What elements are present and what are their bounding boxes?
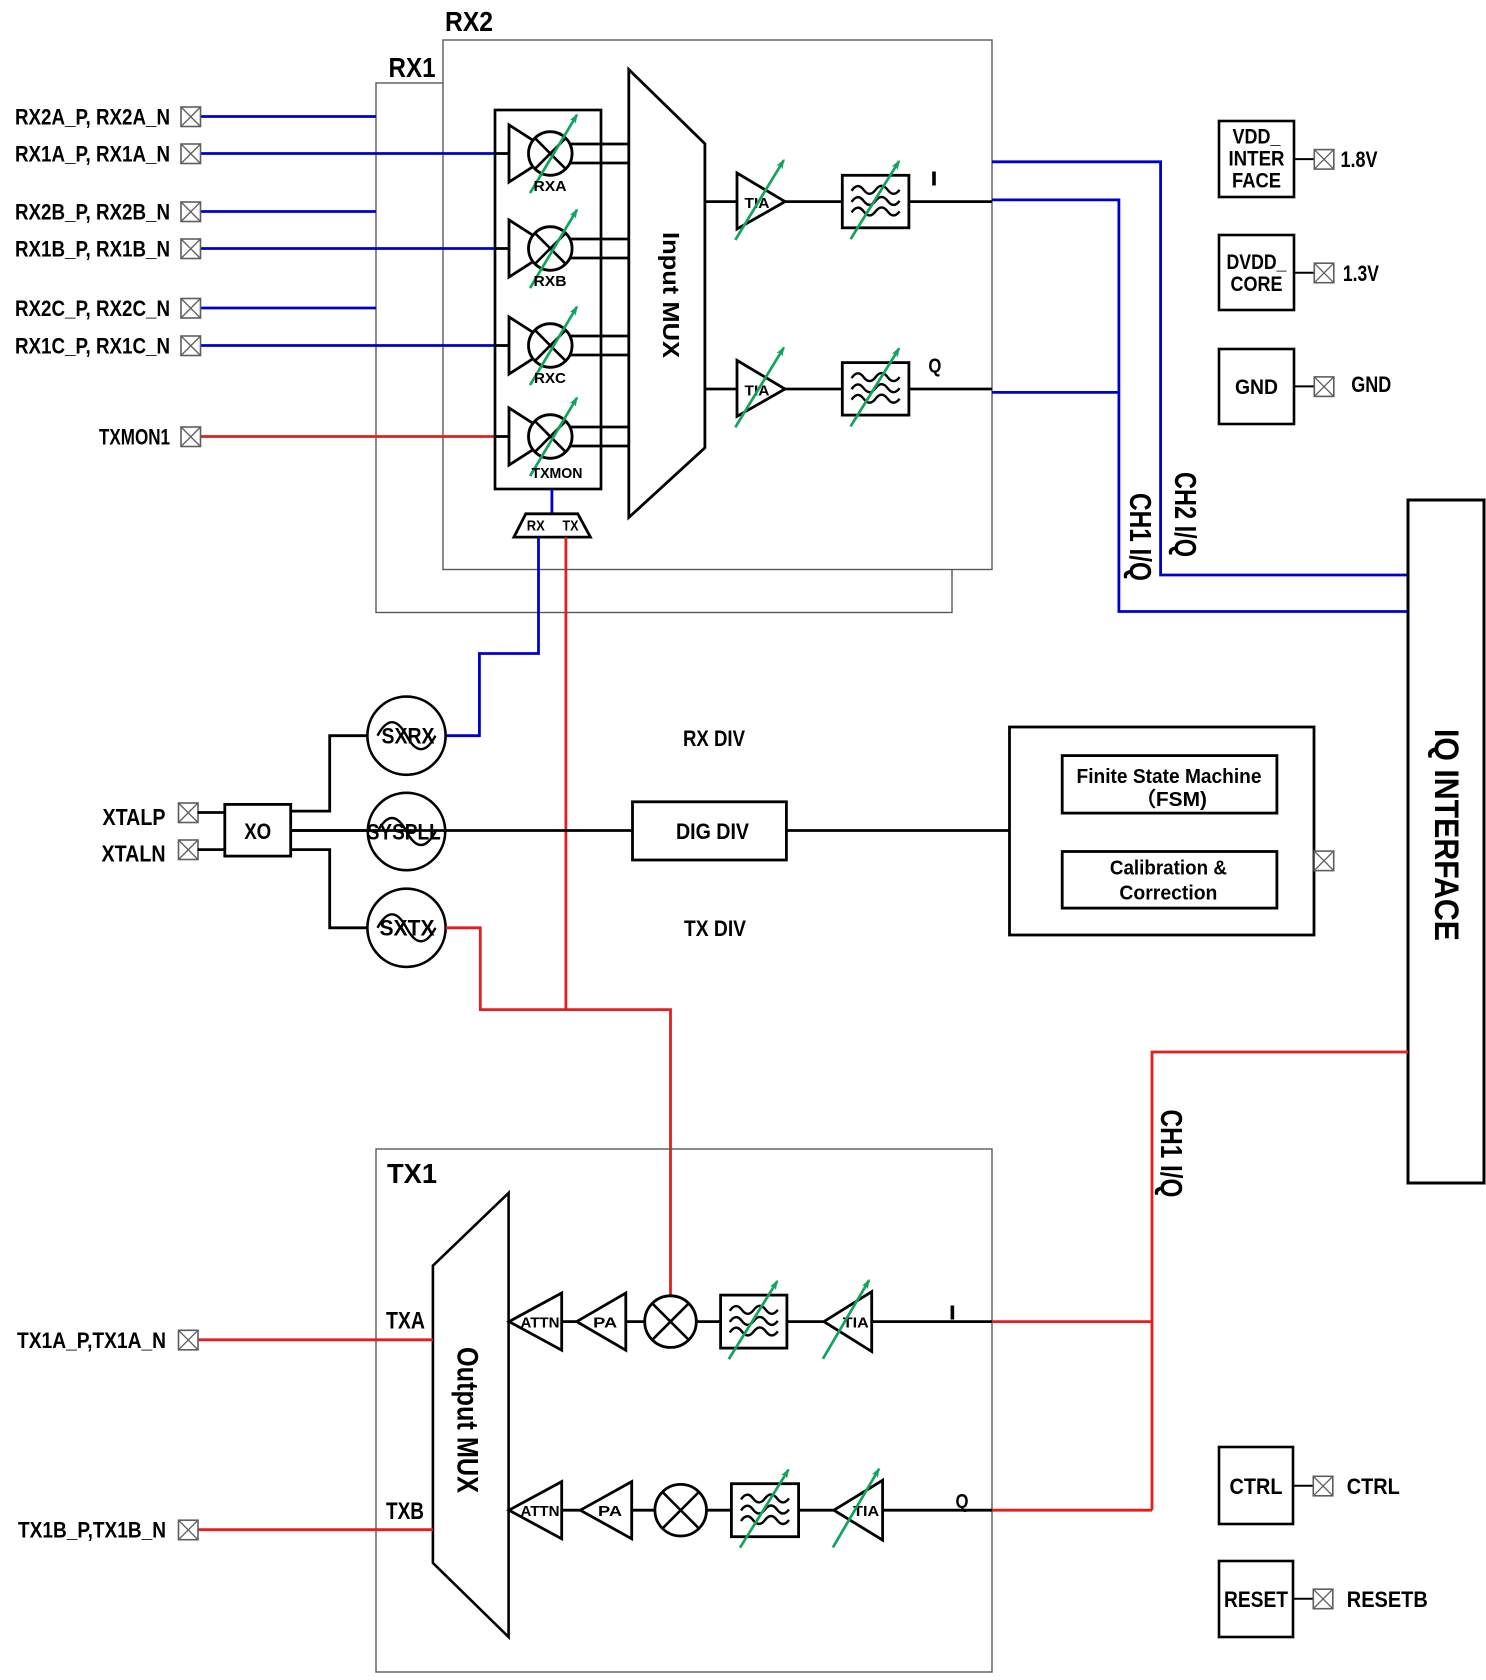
wire TXMON diff pair to Input MUX	[570, 426, 629, 429]
pin XTALN	[179, 840, 199, 860]
wire PA-mixer (Q)	[632, 1509, 655, 1512]
pin RX2A_P, RX2A_N	[181, 107, 201, 127]
pin FSM control	[1314, 851, 1334, 871]
svg-text:DVDD_: DVDD_	[1227, 251, 1287, 274]
svg-text:PA: PA	[593, 1314, 617, 1331]
block TX1 (outer box)	[376, 1149, 992, 1672]
svg-text:RX2B_P, RX2B_N: RX2B_P, RX2B_N	[15, 200, 170, 225]
amplifier PA (Q)	[580, 1482, 631, 1539]
wire TX I feed	[992, 1320, 1152, 1323]
op-amp TIA (RX I)	[737, 173, 785, 229]
pin 1.3V	[1314, 263, 1334, 283]
pin RX1B_P, RX1B_N	[181, 239, 201, 259]
switch RX/TX (trapezoid)	[514, 514, 591, 537]
op-amp TIA (TX I)	[824, 1292, 872, 1352]
mixer TX I	[645, 1296, 697, 1348]
pin TXMON1	[181, 427, 201, 447]
svg-text:1.8V: 1.8V	[1341, 147, 1378, 172]
wire RX2C_P, RX2C_N input	[198, 307, 376, 310]
wire DIG DIV to FSM block	[786, 829, 1009, 832]
amplifier RXC (LNA triangle)	[509, 317, 554, 374]
block DIG DIV	[633, 802, 787, 860]
wire TXMON1 stub to amp	[496, 435, 510, 438]
filter low-pass tunable (RX Q)	[842, 363, 909, 416]
gain arrow TIA (TX Q)	[833, 1469, 879, 1548]
svg-text:I: I	[949, 1303, 956, 1325]
wire CH1 I/Q (RX1 I to IQ interface)	[992, 200, 1408, 612]
svg-text:INTER: INTER	[1229, 148, 1285, 171]
gain arrow TIA (RX I)	[735, 160, 784, 240]
gain arrow TIA (TX I)	[823, 1280, 869, 1359]
wire SXTX LO (red)	[446, 928, 671, 1299]
svg-text:TX: TX	[563, 518, 579, 535]
mux Output MUX (trapezoid)	[433, 1193, 509, 1637]
op-amp TIA (RX Q)	[737, 360, 785, 416]
oscillator SXRX	[367, 697, 445, 775]
svg-text:XTALP: XTALP	[103, 804, 166, 830]
pin RX1C_P, RX1C_N	[181, 336, 201, 356]
svg-text:Input MUX: Input MUX	[658, 232, 684, 359]
oscillator SYSPLL	[368, 793, 445, 870]
svg-text:RX2: RX2	[445, 6, 493, 37]
filter low-pass tunable (TX I)	[721, 1295, 787, 1348]
svg-text:RXB: RXB	[534, 273, 567, 290]
wire TIA to TX1 edge (Q)	[883, 1509, 992, 1512]
attenuator ATTN (I)	[509, 1293, 562, 1350]
wire RX1B_P, RX1B_N stub to amp	[496, 247, 510, 250]
svg-text:RESETB: RESETB	[1347, 1587, 1428, 1612]
svg-text:SYSPLL: SYSPLL	[367, 819, 441, 844]
amplifier TXMON (LNA triangle)	[509, 408, 554, 465]
mux Input MUX (trapezoid)	[629, 70, 705, 518]
pin TX1B	[179, 1520, 199, 1540]
svg-text:ATTN: ATTN	[521, 1314, 560, 1331]
wire RXC diff pair to Input MUX	[570, 335, 629, 338]
mixer RXA	[529, 132, 573, 176]
svg-text:PA: PA	[598, 1503, 622, 1520]
pin RX1A_P, RX1A_N	[181, 144, 201, 164]
wire CH2 I/Q (RX2 to IQ interface)	[992, 162, 1408, 575]
filter low-pass tunable (RX I)	[842, 175, 909, 228]
pin RESETB	[1313, 1589, 1333, 1609]
wire XTALP to XO	[198, 811, 225, 814]
svg-text:TX DIV: TX DIV	[684, 916, 746, 941]
svg-text:RXA: RXA	[534, 178, 567, 195]
block digital control container	[1010, 727, 1315, 935]
wire DVDD_CORE to 1.3V pin	[1294, 272, 1314, 274]
svg-text:RX2C_P, RX2C_N: RX2C_P, RX2C_N	[15, 296, 170, 321]
wire mixer group to RX/TX switch	[551, 489, 554, 514]
svg-text:RX1A_P, RX1A_N: RX1A_P, RX1A_N	[15, 142, 170, 167]
svg-text:VDD_: VDD_	[1233, 126, 1281, 149]
block XO	[225, 804, 291, 856]
wire TIA to TX1 edge (I)	[872, 1320, 992, 1323]
mixer RXB	[529, 227, 573, 271]
svg-text:Q: Q	[956, 1491, 969, 1513]
svg-text:Correction: Correction	[1119, 883, 1217, 905]
op-amp TIA (TX Q)	[834, 1480, 883, 1540]
block GND	[1219, 349, 1294, 424]
filter low-pass tunable (TX Q)	[731, 1484, 798, 1537]
wire Input MUX to TIA (Q)	[705, 388, 737, 391]
svg-text:ATTN: ATTN	[521, 1503, 560, 1520]
wire RX2A_P, RX2A_N input	[198, 115, 376, 118]
wire RX LO from SXRX	[446, 537, 539, 736]
wire mixer-filter (I)	[696, 1320, 720, 1323]
mixer RXC	[529, 324, 573, 368]
block CTRL	[1219, 1447, 1293, 1524]
wire ATTN-PA (I)	[562, 1320, 577, 1323]
wire TIA to filter (I)	[785, 200, 842, 203]
wire RX1A_P, RX1A_N stub to amp	[496, 152, 510, 155]
amplifier RXA (LNA triangle)	[509, 125, 554, 182]
svg-text:GND: GND	[1235, 376, 1278, 399]
wire RESET to pin	[1293, 1598, 1313, 1600]
wire filter-TIA (I)	[787, 1320, 824, 1323]
wire ATTN-PA (Q)	[562, 1509, 581, 1512]
svg-text:CH1 I/Q: CH1 I/Q	[1154, 1110, 1189, 1198]
wire RX1C_P, RX1C_N stub to amp	[496, 344, 510, 347]
gain arrow TIA (RX Q)	[735, 348, 784, 428]
wire RXB diff pair to Input MUX	[570, 238, 629, 241]
svg-text:RX: RX	[527, 518, 545, 535]
wire PA-mixer (I)	[626, 1320, 645, 1323]
svg-text:I: I	[931, 169, 938, 191]
wire XTALN to XO	[198, 848, 225, 851]
wire filter-TIA (Q)	[799, 1509, 834, 1512]
svg-text:RX1: RX1	[389, 52, 436, 83]
amplifier RXB (LNA triangle)	[509, 220, 554, 277]
block RX2 (outer box)	[443, 40, 992, 570]
pin 1.8V	[1314, 150, 1334, 170]
wire RX1A_P, RX1A_N input	[198, 152, 496, 155]
svg-text:1.3V: 1.3V	[1343, 261, 1379, 286]
block Finite State Machine (FSM)	[1062, 756, 1277, 814]
svg-text:DIG DIV: DIG DIV	[676, 819, 749, 844]
box RX mixer group	[495, 110, 601, 489]
wire VDD_INTERFACE to 1.8V pin	[1294, 158, 1314, 160]
wire mixer-filter (Q)	[707, 1509, 732, 1512]
amplifier PA (I)	[577, 1293, 626, 1350]
svg-text:IQ INTERFACE: IQ INTERFACE	[1427, 729, 1465, 941]
svg-text:CTRL: CTRL	[1230, 1474, 1283, 1499]
pin TX1A	[179, 1330, 199, 1350]
svg-text:CORE: CORE	[1231, 273, 1283, 296]
svg-text:GND: GND	[1351, 372, 1391, 397]
svg-text:RXC: RXC	[534, 370, 566, 387]
block VDD_INTERFACE	[1219, 121, 1294, 197]
wire filter to RX2 edge (I)	[909, 200, 992, 203]
wire GND to GND pin	[1294, 385, 1314, 387]
svg-text:TXB: TXB	[386, 1498, 424, 1525]
block RX1 (outer box)	[376, 83, 952, 613]
wire TX1A input	[198, 1338, 433, 1341]
wire XO to SYSPLL	[291, 829, 368, 832]
svg-text:RX1C_P, RX1C_N: RX1C_P, RX1C_N	[15, 334, 170, 359]
svg-text:Calibration &: Calibration &	[1110, 858, 1227, 880]
svg-text:TXMON: TXMON	[532, 465, 583, 482]
svg-text:TXA: TXA	[386, 1307, 425, 1334]
wire TX1B input	[198, 1528, 433, 1531]
svg-text:TX1: TX1	[387, 1158, 437, 1189]
svg-text:Output MUX: Output MUX	[451, 1347, 484, 1493]
wire XO to SXTX	[291, 850, 368, 928]
svg-text:XO: XO	[244, 819, 271, 844]
svg-text:CTRL: CTRL	[1347, 1474, 1400, 1499]
svg-text:Finite State Machine: Finite State Machine	[1077, 766, 1262, 788]
svg-text:RX2A_P, RX2A_N: RX2A_P, RX2A_N	[15, 105, 170, 130]
gain arrow RXA	[530, 115, 577, 193]
wire TX Q feed	[992, 1509, 1152, 1512]
mixer TXMON	[529, 415, 573, 459]
gain arrow RXC	[530, 307, 577, 385]
svg-text:Q: Q	[928, 356, 941, 378]
svg-text:FACE: FACE	[1232, 170, 1281, 193]
gain arrow RXB	[530, 210, 577, 288]
oscillator SXTX	[367, 889, 445, 967]
wire filter to RX2 edge (Q)	[909, 388, 992, 391]
wire TX LO to TX switch	[565, 537, 568, 1010]
pin GND	[1314, 377, 1334, 397]
svg-text:SXTX: SXTX	[380, 916, 435, 941]
svg-text:CH1 I/Q: CH1 I/Q	[1123, 493, 1158, 581]
svg-text:TXMON1: TXMON1	[99, 425, 170, 450]
svg-text:CH2 I/Q: CH2 I/Q	[1168, 472, 1203, 557]
block RESET	[1219, 1561, 1293, 1637]
svg-text:RX1B_P, RX1B_N: RX1B_P, RX1B_N	[15, 237, 170, 262]
wire CH1 Q join	[992, 391, 1119, 394]
wire RXA diff pair to Input MUX	[570, 143, 629, 146]
mixer TX Q	[655, 1484, 707, 1536]
wire RX1B_P, RX1B_N input	[198, 247, 496, 250]
wire TIA to filter (Q)	[785, 388, 842, 391]
block Calibration &amp; Correction	[1062, 852, 1277, 909]
svg-text:SXRX: SXRX	[382, 724, 435, 749]
wire Input MUX to TIA (I)	[705, 200, 737, 203]
block DVDD_CORE	[1219, 235, 1294, 310]
pin XTALP	[179, 803, 199, 823]
gain arrow TXMON	[530, 398, 577, 476]
wire TXMON1 input	[198, 435, 496, 438]
pin RX2B_P, RX2B_N	[181, 202, 201, 222]
block IQ INTERFACE	[1408, 500, 1484, 1183]
wire XO to SXRX	[291, 736, 368, 811]
wire CTRL to pin	[1293, 1485, 1313, 1487]
wire RX2B_P, RX2B_N input	[198, 210, 376, 213]
pin CTRL	[1313, 1476, 1333, 1496]
svg-text:TX1B_P,TX1B_N: TX1B_P,TX1B_N	[18, 1518, 166, 1543]
svg-text:RX DIV: RX DIV	[683, 726, 745, 751]
svg-text:（FSM): （FSM)	[1135, 788, 1207, 811]
wire RX1C_P, RX1C_N input	[198, 344, 496, 347]
attenuator ATTN (Q)	[509, 1482, 562, 1539]
pin RX2C_P, RX2C_N	[181, 299, 201, 319]
svg-text:TX1A_P,TX1A_N: TX1A_P,TX1A_N	[17, 1328, 166, 1353]
wire CH1 I/Q (IQ interface to TX1)	[1152, 1052, 1408, 1510]
svg-text:RESET: RESET	[1224, 1587, 1288, 1612]
svg-text:XTALN: XTALN	[102, 841, 166, 867]
wire SYSPLL through to DIG DIV	[291, 829, 633, 832]
